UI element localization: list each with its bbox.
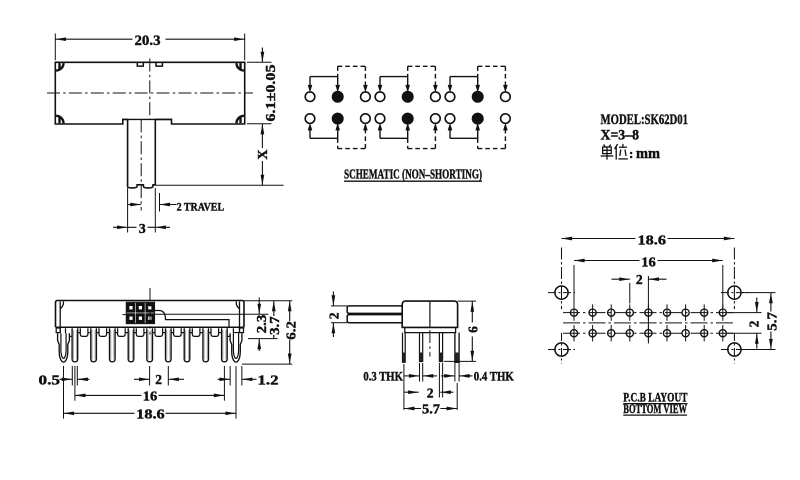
front view pin 4 [128,328,134,362]
front view pin 8 [203,328,209,362]
top view corner post at (55,124) [56,116,63,123]
top view corner post at (55,62) [56,63,63,70]
PCB title P.C.B LAYOUT [623,390,688,404]
svg-text:2 TRAVEL: 2 TRAVEL [177,200,225,214]
side view pin C [439,333,442,362]
svg-text:MODEL:SK62D01: MODEL:SK62D01 [601,112,689,128]
PCB hole top row #9 [719,304,726,320]
svg-text:0.5: 0.5 [39,372,61,387]
dimension 6.1±0.05 [247,48,278,124]
top view top-edge notch left [137,62,143,66]
dimension X (knob height) [155,124,283,186]
front view: body [56,301,245,328]
model text block [601,112,689,144]
front view dimension 18.6 [64,366,237,421]
front view left ear tab [56,302,63,333]
side view dimension 2 (knob thickness) [327,292,347,338]
top view vertical centerline [149,59,151,120]
svg-text:18.6: 18.6 [638,232,667,247]
svg-text:20.3: 20.3 [135,33,161,49]
top view: switch body outline with actuator knob [55,62,244,188]
svg-text:2: 2 [427,385,434,400]
side view knob upper prong [347,306,402,314]
PCB hole bottom row #9 [719,325,726,341]
unit label 单位: mm [601,144,628,160]
svg-text:16: 16 [143,389,158,404]
front view right reference lines [242,301,292,364]
front view dimension 1.2 (leg width) [218,366,279,387]
front view pin 9 [222,328,228,362]
top view corner post at (245,62) [237,63,244,70]
top view corner post at (245,124) [237,116,244,123]
PCB dimension 18.6 [562,232,735,247]
PCB mounting hole bottom-right [721,333,748,364]
PCB dimension 16 [574,254,723,308]
PCB hole top row #6 [663,304,670,320]
front view pin 3 [110,328,116,362]
front view flange slot at x=196.1 [192,328,200,336]
side view pin B [420,333,423,362]
PCB hole bottom row #6 [663,325,670,341]
svg-text::: : [629,146,633,161]
front view body bottom edge [56,326,245,328]
front view pin 2 [91,328,97,362]
PCB hole bottom row #8 [701,325,708,341]
front view flange slot at x=84.1 [80,328,88,336]
side view vertical centerline [429,302,431,328]
svg-text:5.7: 5.7 [764,312,779,331]
front view pin 6 [166,328,172,362]
svg-text:2: 2 [746,320,761,327]
PCB mounting hole bottom-left [548,333,575,364]
PCB dimension 2 (hole pitch) [612,272,667,344]
top view top-edge notch right [156,62,162,66]
PCB hole bottom row #2 [589,325,596,341]
top view knob centerline [140,119,142,210]
PCB hole bottom row #3 [608,325,615,341]
svg-text:6: 6 [466,326,481,333]
svg-text:SCHEMATIC (NON–SHORTING): SCHEMATIC (NON–SHORTING) [344,167,482,182]
PCB row centerline bottom [563,332,734,334]
front view flange slot at x=229.6 [226,328,234,336]
front view flange slot at x=69.3 [66,328,74,336]
front view right ear tab [236,302,243,333]
front view flange slot at x=158.8 [155,328,163,336]
front view left mounting leg [58,333,70,362]
front view flange slot at x=102.8 [99,328,107,336]
front view knob (hatched grid) [123,302,155,323]
front view pin 5 [147,328,153,362]
svg-text:2: 2 [327,312,342,319]
PCB hole top row #1 [570,304,577,320]
PCB hole top row #8 [701,304,708,320]
PCB dimension 2 (row spacing) [728,298,762,349]
PCB hole bottom row #5 [645,325,652,341]
side view knob lower prong [347,315,402,323]
svg-text:3.7: 3.7 [267,316,282,335]
front view dimension 2.3 [254,298,269,352]
PCB row centerline top [563,312,734,314]
front view flange slot at x=214.8 [211,328,219,336]
side view dimension 6 [444,301,481,361]
side view dimension 0.4 THK [441,369,514,383]
front view dimension 0.5 (pin width) [39,366,90,387]
front view dimension 6.2 [283,301,298,364]
front view dimension 2 (pin pitch) [134,366,184,387]
svg-text:2: 2 [155,372,162,387]
PCB dimension 5.7 [742,293,779,350]
side view pin D (0.4 thk) [455,333,459,363]
PCB hole top row #4 [626,304,633,320]
side view pin extension lines [404,363,459,410]
schematic pole 1 [305,66,370,148]
PCB middle centerline [563,322,734,324]
dimension 20.3 [55,33,244,61]
PCB hole bottom row #1 [570,325,577,341]
front view bottom flange edge [71,332,240,334]
front view right mounting leg [230,333,242,362]
svg-text:18.6: 18.6 [136,406,165,421]
PCB hole top row #2 [589,304,596,320]
front view pin 1 [72,328,78,362]
svg-text:BOTTOM VIEW: BOTTOM VIEW [623,402,687,416]
side view dimension 2 (row pitch) [405,385,454,400]
side view dimension 5.7 [404,402,457,417]
front view mid reference line [155,313,269,315]
side view flange band [405,327,456,332]
svg-text:5.7: 5.7 [422,402,440,417]
schematic pole 2 [375,66,440,148]
PCB hole bottom row #4 [626,325,633,341]
svg-text:6.2: 6.2 [283,321,298,340]
PCB mounting hole top-right [721,248,748,310]
side view: body [402,301,457,327]
svg-text:16: 16 [641,254,656,269]
front view flange slot at x=121.4 [118,328,126,336]
svg-text:0.3 THK: 0.3 THK [363,369,403,383]
top view knob slot platform edge [123,118,172,120]
svg-text:6.1±0.05: 6.1±0.05 [263,64,278,121]
front view dimension 16 [75,366,225,404]
dimension 2 TRAVEL [128,193,225,214]
side view dimension 0.3 THK [363,369,437,383]
schematic title SCHEMATIC (NON-SHORTING) [344,167,482,182]
PCB hole top row #3 [608,304,615,320]
front view flange slot at x=177.4 [174,328,182,336]
svg-text:3: 3 [139,222,146,237]
svg-text:1.2: 1.2 [258,372,279,387]
front view vertical centerline [149,288,151,335]
top view horizontal centerline [47,92,253,94]
side view pin A (0.3 thk) [403,333,406,363]
PCB mounting hole top-left [548,248,575,310]
PCB hole top row #7 [682,304,689,320]
front view flange slot at x=140.1 [136,328,144,336]
PCB hole top row #5 [645,304,652,320]
svg-text:mm: mm [636,146,660,162]
svg-text:X: X [256,149,271,159]
front view pin 7 [184,328,190,362]
front view dimension 3.7 [267,301,282,339]
PCB hole bottom row #7 [682,325,689,341]
schematic pole 3 [445,66,510,148]
PCB title BOTTOM VIEW [623,402,687,416]
front view slider plate line [155,311,230,328]
dimension 3 (knob width) [113,188,170,237]
svg-text:0.4 THK: 0.4 THK [474,369,514,383]
svg-text:X=3–8: X=3–8 [601,128,640,144]
svg-text:2: 2 [636,272,643,287]
